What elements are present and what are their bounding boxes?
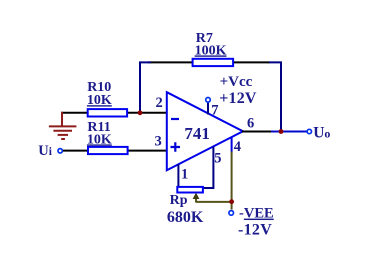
svg-text:Uo: Uo xyxy=(313,124,330,141)
svg-text:680K: 680K xyxy=(167,209,204,226)
svg-text:-12V: -12V xyxy=(238,221,272,238)
wire: Rp wiper stem (dark olive) xyxy=(195,197,197,203)
wire: pin 7 stub (navy) xyxy=(207,102,209,115)
wire: Rp wiper horizontal to -VEE node (dark olive) xyxy=(196,201,232,203)
svg-text:5: 5 xyxy=(214,151,221,167)
wire: ground to R10 xyxy=(61,112,89,114)
wire: output to Uo terminal (navy) xyxy=(271,131,307,133)
svg-text:-VEE: -VEE xyxy=(239,206,274,222)
svg-text:2: 2 xyxy=(156,95,163,111)
terminal: output Uo xyxy=(307,129,311,133)
terminal: +Vcc pin 7 xyxy=(206,98,211,103)
svg-text:Ui: Ui xyxy=(38,143,52,159)
ground xyxy=(49,112,77,139)
resistor R10 xyxy=(88,109,127,116)
wire: pin 4 stub (blue) xyxy=(231,138,233,153)
resistor R7 xyxy=(193,59,234,66)
wire: feedback top horizontal (left black segment) xyxy=(148,61,193,63)
svg-text:10K: 10K xyxy=(87,93,112,108)
svg-text:4: 4 xyxy=(234,139,241,155)
svg-text:1: 1 xyxy=(181,167,188,183)
svg-text:7: 7 xyxy=(211,103,218,119)
svg-text:6: 6 xyxy=(247,116,254,132)
wire: R10 to op-amp pin 2 xyxy=(126,112,167,114)
wire: feedback top horizontal (right black segment) xyxy=(233,61,270,63)
svg-text:3: 3 xyxy=(155,134,162,150)
svg-text:100K: 100K xyxy=(195,43,227,58)
wire: pin 1 stub down to Rp (navy) xyxy=(177,164,179,188)
wire: feedback left corner + vertical (navy) xyxy=(140,62,151,112)
svg-text:10K: 10K xyxy=(87,132,112,147)
wire: pin 5 stub down + over to Rp (navy) xyxy=(202,147,213,188)
wire: pin 6 output stub (black) xyxy=(242,131,272,133)
Rp wiper arrowhead xyxy=(193,193,200,199)
wire: pin 4 down to -VEE node (dark olive) xyxy=(231,152,233,210)
op-amp plus sign xyxy=(171,142,181,151)
potentiometer Rp xyxy=(177,187,203,193)
svg-text:Rp: Rp xyxy=(170,193,188,208)
wire: R11 to op-amp pin 3 xyxy=(126,150,167,152)
wire: Ui to R11 xyxy=(63,150,89,152)
resistor R11 xyxy=(88,147,128,154)
node A: junction R10 / pin2 / feedback xyxy=(138,110,143,115)
op-amp minus sign xyxy=(171,118,179,120)
wire: feedback right corner + vertical (navy) xyxy=(269,62,281,131)
op-amp U1 (741) triangle xyxy=(167,92,243,170)
svg-text:741: 741 xyxy=(184,124,210,143)
svg-text:+Vcc: +Vcc xyxy=(220,74,253,90)
node C: junction pin4 / wiper / -VEE xyxy=(229,199,234,204)
terminal: -VEE xyxy=(229,211,234,216)
terminal: input Ui xyxy=(58,149,62,153)
svg-text:+12V: +12V xyxy=(219,90,257,107)
node B: output junction xyxy=(279,129,284,134)
